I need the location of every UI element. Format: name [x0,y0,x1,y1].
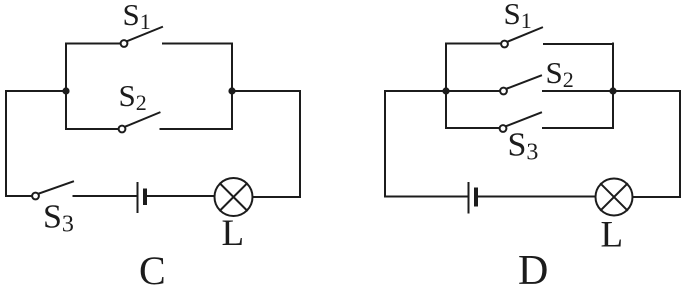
switch S1 (D) [501,28,542,48]
lamp L (D) [596,179,633,216]
switch S2 (D) [500,76,541,95]
battery B2 (cell) [469,183,477,213]
wire: S3 to battery [74,195,136,197]
wire: C lower branch right segment [161,128,233,130]
node F (D right junction) [609,87,616,94]
wire: D middle branch left segment [446,90,500,92]
wire: C parallel-block right vertical [231,44,233,130]
wire: D parallel-block right vertical [612,44,614,129]
svg-text:C: C [139,248,166,285]
wire: D top branch right segment [544,43,613,45]
node E (D left junction) [442,87,449,94]
svg-text:D: D [518,248,548,285]
wire: battery to lamp [147,195,215,197]
wire: D left loop from node E down to battery [385,91,467,197]
svg-text:L: L [601,215,624,256]
svg-text:S2: S2 [546,55,574,92]
svg-text:S3: S3 [43,199,74,238]
wire: C left loop from node A down to switch S3 [6,91,66,196]
svg-text:S2: S2 [119,78,147,115]
svg-text:L: L [222,213,245,254]
wire: C lower branch left segment [66,128,118,130]
wire: D parallel-block left vertical [445,44,447,129]
wire: D middle branch right segment [543,90,613,92]
wire: C top branch right segment [163,43,232,45]
wire: D top branch left segment [446,43,501,45]
wire: lamp to right side up to node B [232,91,300,197]
wire: lamp to right side up to node F [613,91,680,197]
svg-text:S1: S1 [123,0,151,34]
wire: C top branch left segment [66,43,120,45]
node B (C right junction) [228,87,235,94]
wire: D lower branch left segment [446,127,499,129]
wire: battery to lamp (D) [478,196,596,198]
svg-text:S3: S3 [508,127,539,166]
wire: C parallel-block left vertical [65,44,67,130]
wire: D lower branch right segment [543,127,613,129]
node A (C left junction) [62,87,69,94]
switch S2 (C) [119,113,160,133]
switch S1 (C) [121,27,162,47]
lamp L (C) [215,178,253,216]
switch S3 [32,182,73,200]
svg-text:S1: S1 [504,0,532,33]
switch S3 (D) [500,113,541,132]
battery B1 (cell) [138,183,146,212]
